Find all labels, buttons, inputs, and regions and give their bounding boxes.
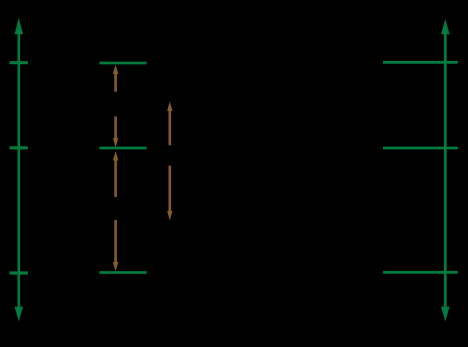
pump transition arrow lower shaft — [169, 166, 172, 212]
transition arrow E2-E3 up head — [113, 65, 118, 75]
level line E1 right — [383, 271, 458, 274]
pump transition arrow upper shaft — [169, 110, 172, 145]
pump transition arrow down head — [167, 211, 172, 221]
transition arrow E2-E3 lower shaft — [114, 116, 117, 139]
transition arrow E2-E3 down head — [113, 138, 118, 148]
transition arrow E2-E3 upper shaft — [114, 73, 117, 92]
level line E2 middle — [99, 147, 146, 150]
pump transition arrow up head — [167, 102, 172, 112]
right axis bottom arrowhead — [441, 307, 450, 322]
left energy axis — [17, 32, 20, 308]
left axis tick E1 — [10, 271, 28, 274]
transition arrow E1-E2 down head — [113, 262, 118, 272]
level line E1 middle — [99, 271, 146, 274]
right energy axis — [444, 32, 447, 308]
transition arrow E1-E2 upper shaft — [114, 160, 117, 198]
left axis tick E2 — [10, 146, 28, 149]
left axis bottom arrowhead — [15, 307, 24, 322]
left axis tick E3 — [10, 61, 28, 64]
left axis top arrowhead — [15, 18, 24, 34]
right axis top arrowhead — [441, 19, 450, 34]
transition arrow E1-E2 up head — [113, 151, 118, 161]
level line E2 right — [383, 147, 458, 150]
level line E3 middle — [99, 62, 146, 65]
transition arrow E1-E2 lower shaft — [114, 220, 117, 263]
level line E3 right — [383, 61, 458, 64]
